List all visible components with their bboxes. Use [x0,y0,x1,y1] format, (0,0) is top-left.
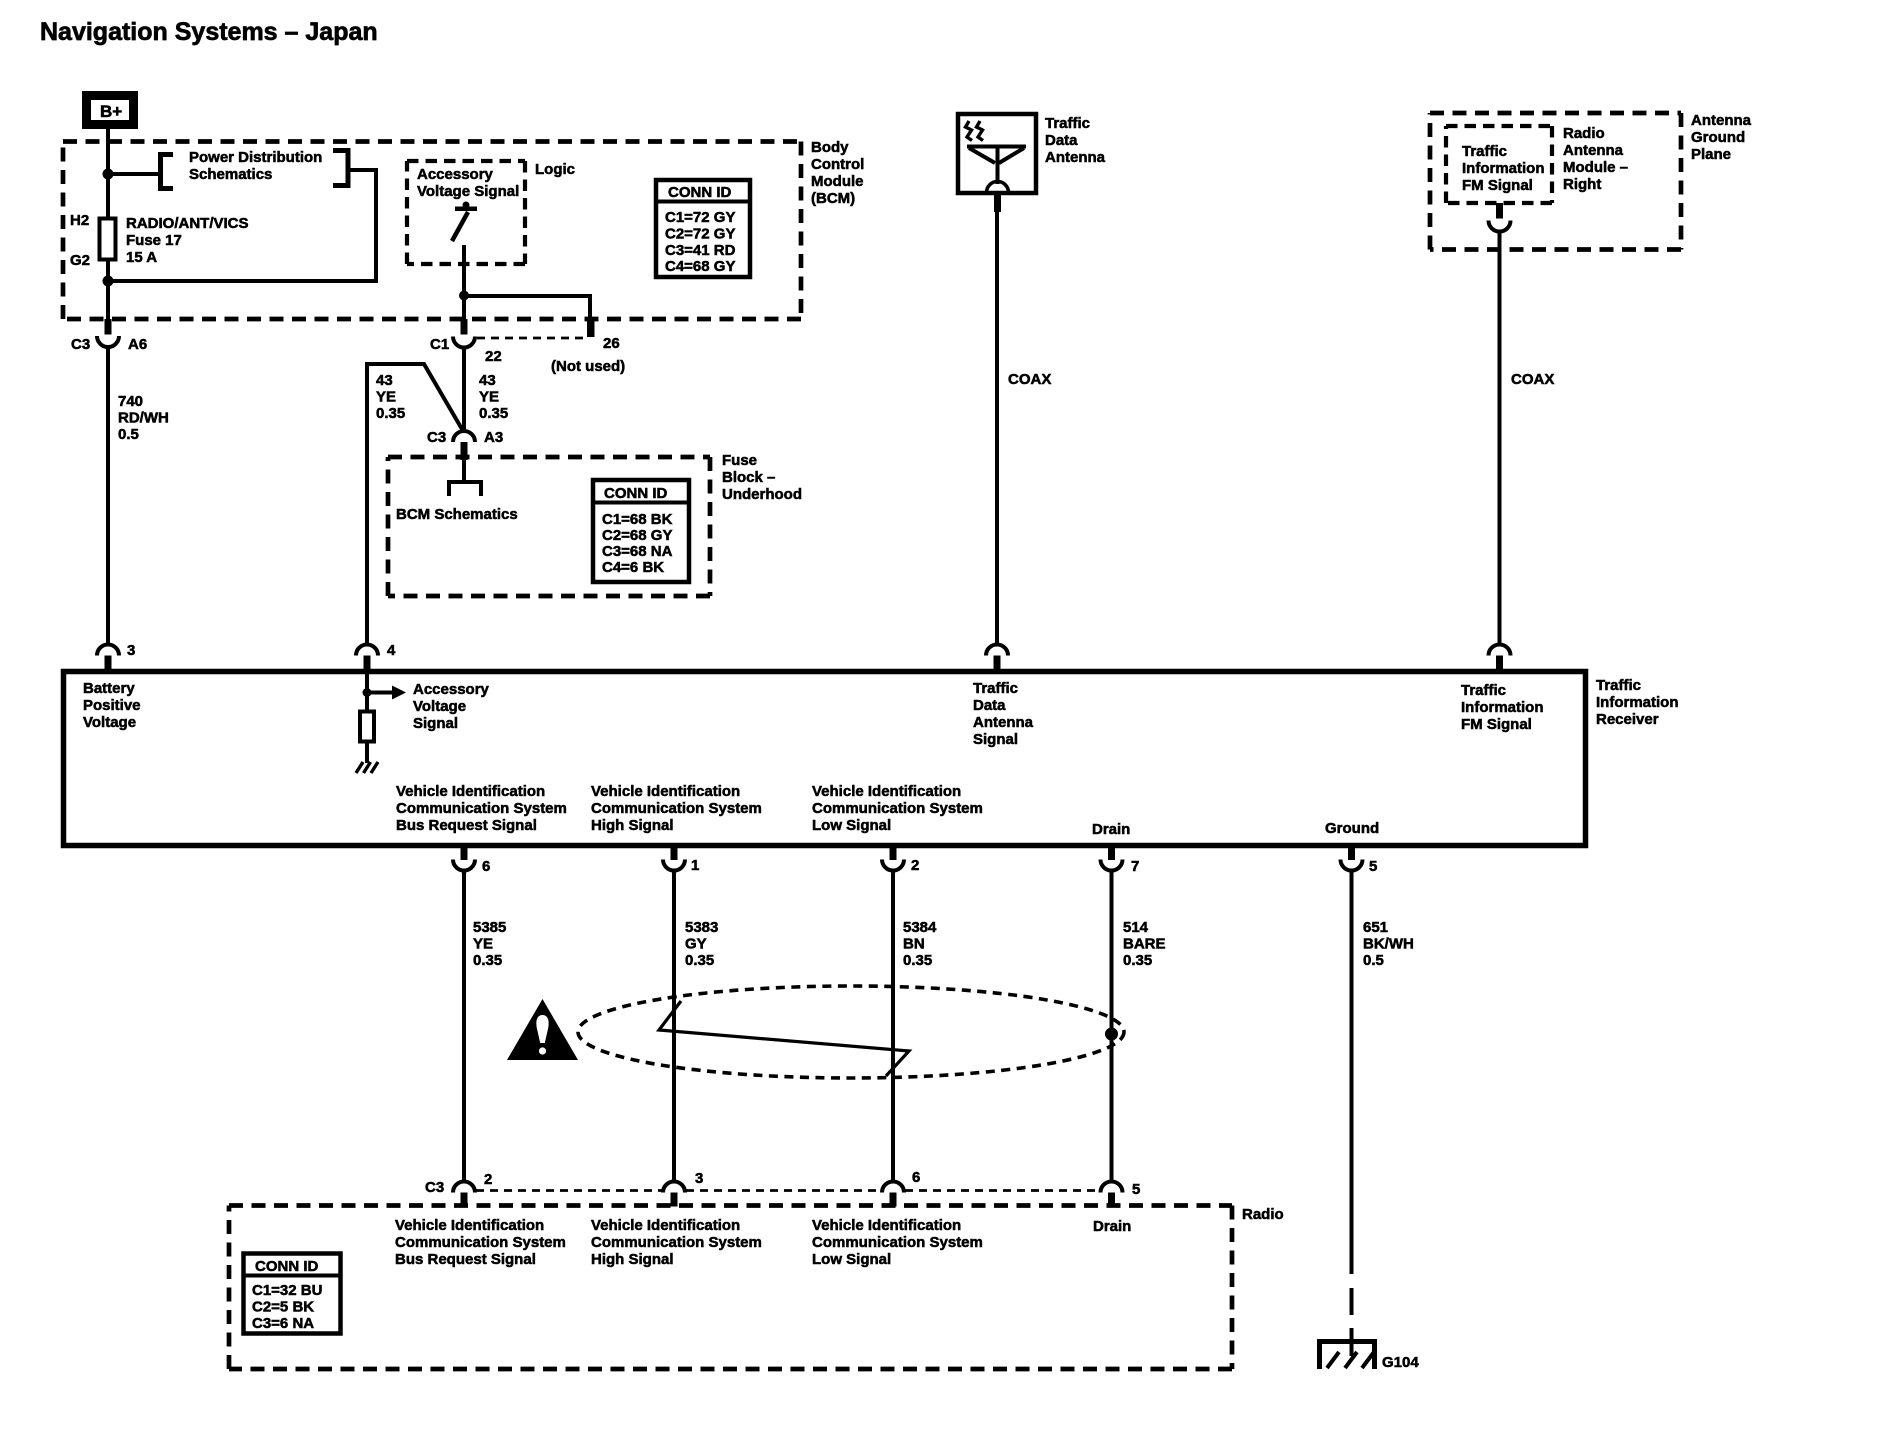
bracket right for Power Distribution Schematics [333,151,348,186]
receiver pin 1 connector [663,846,685,871]
svg-text:BCM Schematics: BCM Schematics [396,506,518,523]
radio connector C3 pin 2 [453,1182,475,1207]
traffic information FM signal inner dashed box [1446,126,1552,203]
svg-text:Drain: Drain [1092,821,1130,838]
junction node fuse output [103,276,114,287]
stub pin 26 [587,319,595,337]
svg-text:C1: C1 [430,336,449,353]
CONN ID table BCM [656,180,750,277]
stub below antenna box [994,195,1001,212]
coax wire traffic data antenna [995,211,999,645]
traffic data antenna box [958,114,1036,193]
fuse F17 RADIO/ANT/VICS [100,219,116,260]
svg-text:5: 5 [1369,858,1377,875]
coax wire traffic information FM signal [1498,232,1502,646]
twisted pair ellipse [578,986,1124,1078]
connector module output [1489,203,1511,232]
accessory voltage signal internal circuit [363,674,407,712]
svg-text:B+: B+ [100,102,122,121]
svg-text:22: 22 [485,348,502,365]
svg-text:3: 3 [127,642,135,659]
fuse block underhood dashed box [388,457,710,596]
svg-text:C3: C3 [427,429,446,446]
connector C1 pin 22 [453,319,475,348]
receiver coax pin traffic data antenna [986,645,1008,672]
twisted pair zigzag [659,1001,909,1076]
radio pin 6 connector [882,1182,904,1207]
wire 5385 YE 0.35 [462,871,466,1182]
svg-text:1: 1 [691,857,699,874]
accessory voltage signal logic dashed box [407,161,525,264]
svg-text:COAX: COAX [1511,371,1554,388]
svg-text:C3: C3 [71,336,90,353]
radio pin 3 connector [663,1182,685,1207]
wire 651 BK/WH 0.5 ground [1350,871,1354,1275]
chassis ground internal [356,762,378,773]
wire 5384 BN 0.35 [891,871,895,1182]
receiver pin 5 connector [1341,846,1363,871]
wire switch to C1 [462,245,466,321]
CONN ID table fuse block [593,480,689,582]
svg-text:Ground: Ground [1325,820,1379,837]
receiver coax pin traffic information FM [1489,645,1511,672]
wire resistor to chassis ground [365,741,369,763]
svg-text:Radio: Radio [1242,1206,1284,1223]
svg-text:2: 2 [484,1171,492,1188]
wire junction to power distribution bracket [108,172,160,176]
B+ battery feed symbol [87,96,134,125]
svg-text:COAX: COAX [1008,371,1051,388]
junction node logic branch [459,291,469,301]
wire 514 BARE 0.35 drain [1110,871,1114,1182]
wire 740 RD/WH 0.5 [106,347,110,645]
receiver pin 2 connector [882,846,904,871]
receiver pin 3 connector [97,645,119,672]
wire 5383 GY 0.35 [672,871,676,1182]
svg-text:CONN ID: CONN ID [604,485,668,502]
svg-text:A3: A3 [484,429,503,446]
svg-text:CONN ID: CONN ID [255,1258,319,1275]
wire branch to pin 26 [464,296,590,319]
svg-text:BatteryPositiveVoltage: BatteryPositiveVoltage [83,680,141,731]
svg-text:C1=72 GYC2=72 GYC3=41 RDC4=68: C1=72 GYC2=72 GYC3=41 RDC4=68 GY [665,209,736,275]
traffic information receiver box [64,672,1586,846]
receiver pin 7 connector [1101,846,1123,871]
CONN ID table radio [244,1254,341,1334]
svg-text:Navigation Systems – Japan: Navigation Systems – Japan [40,18,378,46]
connector C3 pin A3 [453,431,475,460]
svg-text:C1=68 BKC2=68 GYC3=68 NAC4=6 B: C1=68 BKC2=68 GYC3=68 NAC4=6 BK [602,511,673,576]
junction node at B+ branch [103,169,114,180]
warning triangle note [507,999,578,1060]
svg-text:CONN ID: CONN ID [668,184,732,201]
svg-text:2: 2 [911,857,919,874]
svg-text:(Not used): (Not used) [551,358,625,375]
ground G104 symbol [1317,1342,1377,1370]
resistor internal pull [360,712,374,742]
wire into fuse block BCM schematics [462,460,466,482]
wire B+ to fuse H2 [106,129,110,218]
svg-text:6: 6 [482,858,490,875]
svg-text:5: 5 [1132,1181,1140,1198]
svg-text:6: 6 [912,1169,920,1186]
antenna wave marks [966,121,984,141]
receiver pin 6 connector [453,846,475,871]
svg-text:Drain: Drain [1093,1218,1131,1235]
pointer bracket BCM Schematics [449,482,481,496]
svg-text:3: 3 [695,1170,703,1187]
dashed stub wire to pin 26 [477,337,588,340]
svg-text:G2: G2 [70,252,90,269]
radio antenna module outer dashed box [1430,113,1681,250]
junction node drain shield [1105,1028,1118,1041]
svg-text:4: 4 [387,642,396,659]
svg-text:26: 26 [603,335,620,352]
radio pin 5 connector [1101,1182,1123,1207]
radio dashed box [229,1206,1232,1370]
svg-text:H2: H2 [70,212,89,229]
svg-text:C3: C3 [425,1179,444,1196]
switch accessory voltage [452,202,477,242]
wire power distribution return loop to fuse output [108,170,376,281]
wire fuse to BCM bottom [106,255,110,321]
wire 43 YE 0.35 from C1-22 [462,348,466,433]
svg-text:G104: G104 [1382,1354,1419,1371]
antenna symbol [967,147,1026,193]
bracket left for Power Distribution Schematics [161,155,174,189]
connector C3 pin A6 [97,319,119,347]
dashed connector line radio pins [476,1189,1099,1192]
svg-text:Logic: Logic [535,161,575,178]
receiver pin 4 connector [356,645,378,672]
BCM dashed box [63,142,801,320]
svg-text:C1=32 BUC2=5 BKC3=6 NA: C1=32 BUC2=5 BKC3=6 NA [252,1282,322,1332]
svg-text:A6: A6 [128,336,147,353]
wire ground dashed continuation [1350,1288,1354,1356]
svg-text:7: 7 [1131,858,1139,875]
wire branch to receiver pin 4 [367,364,463,645]
